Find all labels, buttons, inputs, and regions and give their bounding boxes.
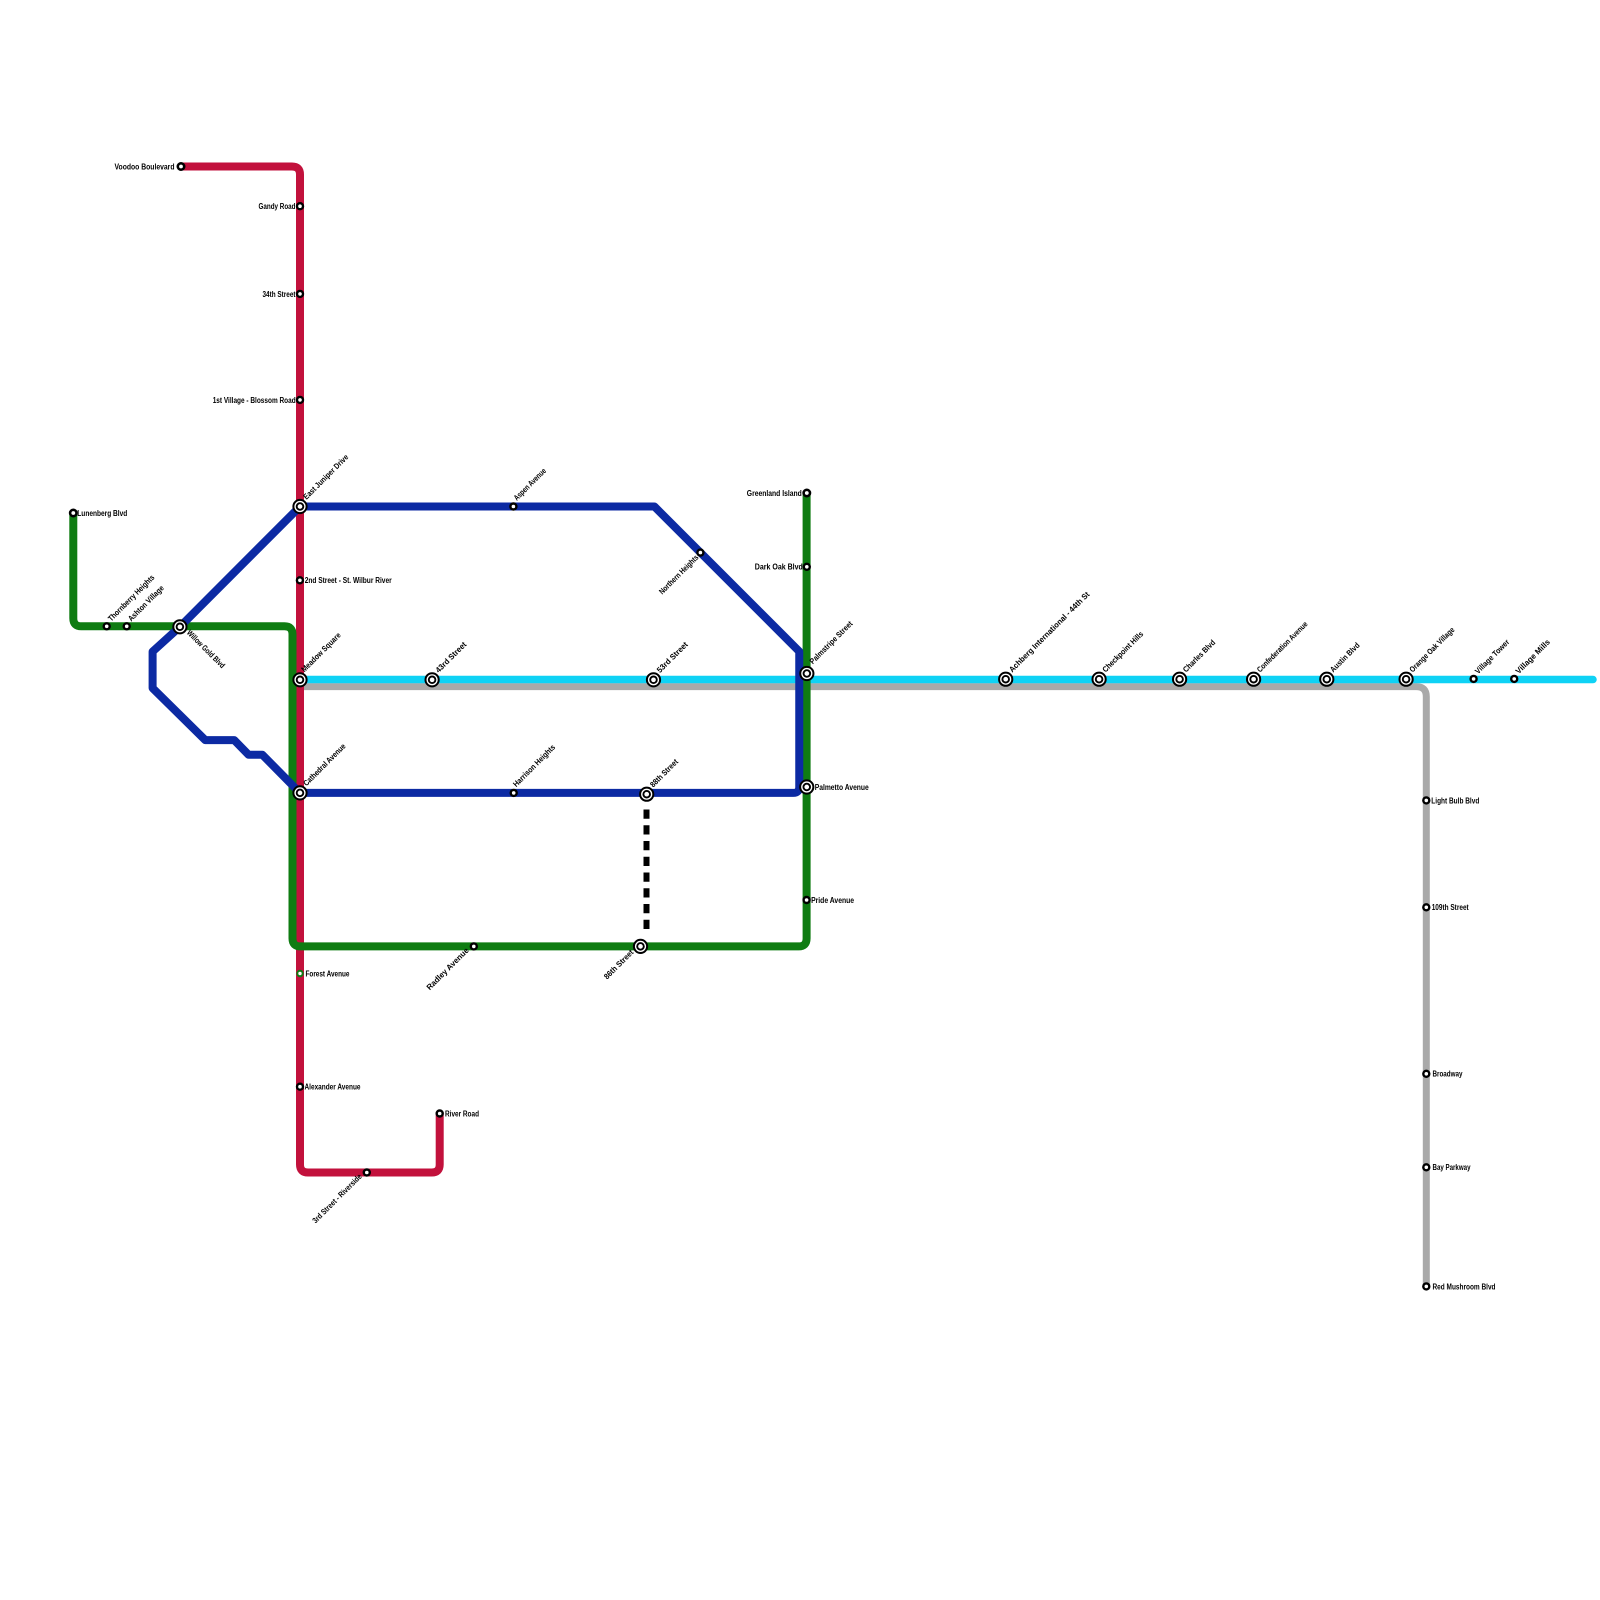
station Light Bulb Blvd — [1423, 797, 1429, 803]
terminus station Lunenberg Blvd — [70, 510, 76, 516]
green line: Lunenberg Blvd to Greenland Island — [73, 493, 806, 946]
interchange station East Juniper Drive — [293, 500, 306, 513]
station Bay Parkway — [1423, 1164, 1429, 1170]
svg-text:Broadway: Broadway — [1433, 1070, 1463, 1079]
station Red Mushroom Blvd — [1423, 1283, 1429, 1289]
station Thornberry Heights — [104, 623, 110, 629]
station Aspen Avenue — [510, 504, 516, 510]
interchange station Meadow Square — [293, 673, 306, 686]
svg-text:Lunenberg Blvd: Lunenberg Blvd — [77, 509, 127, 518]
station Alexander Avenue — [297, 1084, 303, 1090]
svg-text:Bay Parkway: Bay Parkway — [1433, 1163, 1471, 1172]
interchange station 43rd Street — [426, 673, 439, 686]
svg-text:Dark Oak Blvd: Dark Oak Blvd — [755, 563, 803, 572]
station Harrison Heights — [511, 790, 517, 796]
svg-text:Alexander Avenue: Alexander Avenue — [305, 1083, 361, 1092]
dashed black connector 88th St - 86th St — [644, 810, 650, 930]
station Village Mills — [1511, 676, 1517, 682]
interchange station Willow Gold Blvd — [173, 620, 186, 633]
svg-text:Forest Avenue: Forest Avenue — [306, 969, 350, 978]
gray line (Silver) horizontal + vertical to Red Mushroom Blvd — [304, 687, 1426, 1287]
station 2nd Street - St. Wilbur River — [297, 577, 303, 583]
terminus station Voodoo Boulevard — [178, 163, 184, 169]
interchange station 88th Street — [640, 788, 653, 801]
interchange station Palmstripe Street — [800, 667, 813, 680]
svg-text:Light Bulb Blvd: Light Bulb Blvd — [1431, 796, 1479, 805]
station 3rd Street - Riverside — [364, 1170, 370, 1176]
interchange station Austin Blvd — [1320, 673, 1333, 686]
svg-text:Greenland Island: Greenland Island — [747, 489, 802, 498]
svg-text:34th Street: 34th Street — [263, 290, 296, 299]
svg-text:Palmetto Avenue: Palmetto Avenue — [815, 783, 869, 792]
station 34th Street — [297, 291, 303, 297]
station Northern Heights — [697, 550, 703, 556]
svg-text:Red Mushroom Blvd: Red Mushroom Blvd — [1433, 1282, 1496, 1291]
station 109th Street — [1423, 904, 1429, 910]
station Radley Avenue — [471, 943, 477, 949]
interchange station 53rd Street — [647, 673, 660, 686]
interchange station Charles Blvd — [1173, 673, 1186, 686]
station Dark Oak Blvd — [804, 564, 810, 570]
crimson line: Voodoo Boulevard to River Road — [182, 167, 440, 1173]
svg-text:109th Street: 109th Street — [1432, 903, 1469, 912]
svg-text:1st Village - Blossom Road: 1st Village - Blossom Road — [213, 396, 296, 405]
blue line loop — [153, 507, 800, 793]
interchange station 86th Street — [634, 940, 647, 953]
station 1st Village - Blossom Road — [297, 397, 303, 403]
svg-text:Pride Avenue: Pride Avenue — [811, 896, 854, 905]
svg-text:Gandy Road: Gandy Road — [259, 202, 296, 211]
station Village Tower — [1471, 676, 1477, 682]
terminus station Greenland Island — [804, 490, 810, 496]
interchange station Checkpoint Hills — [1093, 673, 1106, 686]
interchange station Cathedral Avenue — [293, 786, 306, 799]
station Broadway — [1423, 1071, 1429, 1077]
svg-text:2nd Street - St. Wilbur River: 2nd Street - St. Wilbur River — [305, 576, 392, 585]
interchange station Confederation Avenue — [1247, 673, 1260, 686]
interchange station Achberg International - 44th St — [999, 673, 1012, 686]
svg-text:Voodoo Boulevard: Voodoo Boulevard — [115, 162, 175, 171]
interchange station Orange Oak Village — [1400, 673, 1413, 686]
station Pride Avenue — [804, 897, 810, 903]
cyan line horizontal — [298, 676, 1593, 684]
station Ashton Village — [124, 623, 130, 629]
interchange station Palmetto Avenue — [800, 780, 813, 793]
station Gandy Road — [297, 203, 303, 209]
station Forest Avenue (green ring) — [297, 971, 302, 976]
svg-text:River Road: River Road — [445, 1109, 479, 1118]
station River Road — [437, 1111, 443, 1117]
